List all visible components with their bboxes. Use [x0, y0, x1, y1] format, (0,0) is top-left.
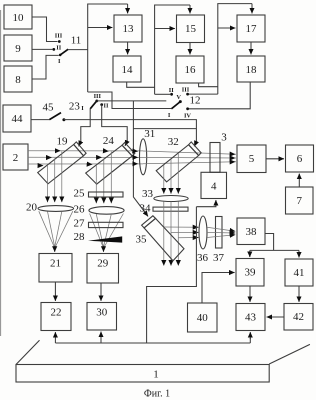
wire 10 to switch 11 contact III	[32, 17, 58, 42]
label 37	[213, 252, 225, 264]
svg-text:42: 42	[293, 311, 304, 323]
svg-text:15: 15	[185, 23, 197, 35]
svg-text:V: V	[176, 94, 181, 101]
wire into 17 left	[218, 27, 236, 29]
rail arrow into 43	[249, 332, 251, 343]
svg-text:23: 23	[69, 101, 81, 113]
focused cone lens 20 to block 21	[39, 211, 73, 252]
wire 5 to 6	[266, 158, 284, 160]
svg-text:II: II	[104, 103, 109, 110]
photometric wedge 28	[88, 236, 122, 242]
svg-text:21: 21	[50, 258, 61, 270]
branch to beamsplitter 32 feed	[133, 128, 196, 130]
wire 42 to 43	[267, 316, 284, 318]
svg-text:34: 34	[140, 203, 152, 215]
svg-text:1: 1	[153, 369, 159, 381]
modulator 3	[210, 143, 220, 173]
beam arrows into lens 31	[134, 151, 138, 164]
beam arrow into mirror 35 corner	[146, 213, 149, 216]
label 20	[26, 202, 38, 214]
beam source lines from laser unit 2	[28, 151, 143, 164]
label 3	[221, 131, 227, 143]
wire block 4 feedback from bus	[196, 200, 216, 207]
switch 45 arm	[49, 113, 61, 120]
svg-text:30: 30	[96, 307, 108, 319]
svg-text:28: 28	[74, 231, 86, 243]
label 33	[142, 188, 154, 200]
svg-text:7: 7	[296, 195, 302, 207]
lens 26	[89, 207, 124, 215]
label 25	[74, 187, 86, 199]
node: channel-1 input bus	[88, 4, 128, 92]
lens 31	[140, 139, 147, 175]
wire 13 to 14	[127, 42, 129, 54]
svg-text:41: 41	[294, 267, 305, 279]
switch 12 contact I label	[168, 112, 171, 119]
wire switch 23 contact II to beamsplitter 24 feed	[102, 105, 128, 143]
svg-text:29: 29	[97, 258, 109, 270]
wire into 15 top	[189, 5, 191, 13]
svg-text:I: I	[81, 105, 84, 112]
block 41	[285, 259, 313, 286]
reflected beams mirror 35 to lens 36	[164, 227, 199, 238]
wire 38 output split to 39 and 41	[250, 234, 299, 258]
filter plate 25	[89, 192, 124, 197]
svg-text:31: 31	[144, 128, 155, 140]
wire channel-1 bottom to switch 12 arm	[88, 92, 172, 109]
switch 11 contact I	[58, 54, 62, 66]
svg-text:39: 39	[245, 267, 257, 279]
beam arrow into beamsplitter 19 corner	[79, 142, 81, 147]
label 28	[74, 231, 86, 243]
block 10	[4, 5, 32, 29]
switch 11 contact II dot	[52, 45, 61, 52]
block 42	[284, 304, 313, 331]
wire into 13 top	[127, 4, 129, 13]
label 27	[74, 218, 86, 230]
svg-text:Фиг. 1: Фиг. 1	[144, 389, 170, 400]
switch 45 contact dot	[62, 118, 65, 121]
wire 7 to 6	[298, 174, 300, 187]
svg-text:32: 32	[168, 136, 179, 148]
switch 11 contact III dot	[55, 33, 63, 43]
svg-text:6: 6	[297, 153, 303, 165]
lens 20	[38, 206, 74, 212]
svg-text:12: 12	[190, 94, 201, 106]
switch 12 contact II	[155, 87, 175, 96]
wire reference beam from line III down to mirror 35	[133, 101, 146, 214]
switch 11 label	[71, 35, 82, 47]
wire switch 23 arm to beamsplitter 19 feed	[81, 109, 90, 143]
block 21	[39, 254, 72, 283]
block 43	[236, 304, 265, 331]
block 30	[87, 303, 117, 331]
mirror 35	[142, 216, 184, 261]
wire 39 to 43	[249, 286, 251, 302]
wire into 15 left	[155, 28, 175, 30]
converging beams into block 38	[207, 227, 235, 237]
converging beams lens 31 to block 5	[143, 151, 236, 164]
label 26	[74, 203, 86, 215]
switch 23 contact I label	[81, 105, 84, 112]
svg-text:5: 5	[249, 153, 255, 165]
wire switch 45 to beamsplitter 32 feed	[64, 120, 197, 143]
beam arrows into block 5	[231, 154, 236, 162]
wire into 13 left	[88, 27, 113, 29]
svg-text:43: 43	[245, 312, 257, 324]
svg-text:14: 14	[122, 64, 134, 76]
beam arrows on beamsplitter 19 face	[39, 151, 61, 166]
filter plate 27	[89, 222, 124, 227]
beam arrow into beamsplitter 32 corner	[194, 142, 196, 147]
switch 12 contact IV	[184, 107, 191, 119]
wire 44 to switch 45	[31, 119, 49, 121]
wire 17 to 18	[250, 42, 252, 54]
base platform 1	[16, 340, 310, 382]
block 14	[113, 56, 141, 82]
label 19	[57, 136, 69, 148]
rail arrow into 30	[100, 332, 102, 343]
reflected beams down from beamsplitter 32	[164, 153, 179, 194]
svg-text:16: 16	[185, 64, 197, 76]
switch 12 contact V	[176, 94, 181, 103]
svg-text:37: 37	[213, 252, 225, 264]
wire 18 output down to contact IV of switch 12	[188, 82, 251, 109]
svg-text:18: 18	[246, 64, 258, 76]
svg-text:35: 35	[136, 233, 148, 245]
svg-text:25: 25	[74, 187, 86, 199]
scan artifact left edge	[0, 10, 2, 336]
svg-text:20: 20	[26, 202, 38, 214]
svg-text:13: 13	[123, 23, 135, 35]
beamsplitter 19	[38, 142, 86, 184]
svg-text:38: 38	[246, 226, 258, 238]
block 15	[177, 15, 205, 43]
switch 45 label	[43, 102, 55, 114]
block 39	[236, 259, 264, 287]
block 17	[237, 15, 265, 42]
svg-text:19: 19	[57, 136, 69, 148]
wire 8 to switch 11 contact I	[32, 55, 59, 79]
svg-text:22: 22	[51, 307, 62, 319]
svg-text:44: 44	[12, 113, 24, 125]
reflected beams down from beamsplitter 19	[48, 151, 62, 202]
svg-text:III: III	[94, 93, 102, 100]
svg-text:11: 11	[71, 35, 82, 47]
svg-text:I: I	[58, 58, 61, 65]
svg-text:17: 17	[246, 23, 258, 35]
wire 21 to 22	[54, 282, 56, 301]
svg-text:II: II	[169, 87, 174, 94]
switch 12 label	[190, 94, 201, 106]
svg-text:III: III	[55, 33, 63, 40]
svg-text:26: 26	[74, 203, 86, 215]
label 24	[103, 135, 115, 147]
reflected beams down from beamsplitter 24	[96, 152, 111, 204]
switch 23 contact III and line toward switch 12	[94, 93, 167, 102]
caption	[144, 389, 170, 400]
beam arrows on beamsplitter 24 face	[88, 151, 109, 165]
node: channel-3 input bus	[218, 4, 252, 95]
label 1	[153, 369, 159, 381]
block 40	[188, 303, 218, 332]
switch 23 label	[69, 101, 81, 113]
svg-text:II: II	[56, 45, 61, 52]
block 7	[286, 187, 314, 214]
block 5	[237, 145, 266, 173]
svg-text:2: 2	[13, 152, 19, 164]
label 31	[144, 128, 155, 140]
wire 41 to 42	[298, 286, 300, 302]
label 32	[168, 136, 179, 148]
svg-text:IV: IV	[184, 112, 191, 119]
svg-text:33: 33	[142, 188, 154, 200]
block 6	[286, 145, 314, 172]
switch 12 contact III	[182, 87, 218, 96]
switch 11 arm	[60, 49, 68, 55]
switch 23 arm	[90, 101, 96, 109]
block 18	[237, 56, 265, 82]
block 44	[3, 105, 31, 132]
svg-text:36: 36	[197, 252, 209, 264]
plate 37	[216, 217, 223, 249]
label 36	[197, 252, 209, 264]
svg-text:8: 8	[15, 74, 21, 86]
label 34	[140, 203, 152, 215]
switch 12 arm	[171, 102, 180, 109]
node: channel-2 input bus	[155, 5, 190, 94]
wire 9 to switch 11 contact II	[32, 48, 52, 50]
beams 34 down through mirror 35	[164, 202, 179, 266]
wire 15 to 16	[189, 43, 191, 55]
svg-text:4: 4	[211, 181, 217, 193]
rail arrow into 22	[54, 332, 56, 343]
block 13	[114, 15, 142, 42]
block 29	[87, 254, 119, 284]
wire 16 output to channel-3 bus	[199, 83, 218, 87]
wire into 17 top	[251, 4, 253, 14]
plate 34	[153, 207, 188, 211]
wire 29 to 30	[100, 283, 102, 301]
block 8	[4, 66, 32, 92]
wire vertical bus to bottom rail	[147, 207, 197, 343]
svg-text:24: 24	[103, 135, 115, 147]
wire 40 to 39	[202, 273, 235, 304]
svg-text:40: 40	[197, 312, 209, 324]
bottom rail bus	[55, 342, 250, 344]
beamsplitter 24	[86, 143, 135, 185]
svg-text:I: I	[168, 112, 171, 119]
block 9	[4, 35, 32, 61]
wire 14 output to node II of switch 12	[127, 82, 155, 87]
lens 33	[154, 196, 188, 202]
block 4	[201, 172, 227, 198]
block 2	[3, 144, 28, 170]
block 22	[41, 303, 71, 331]
svg-text:3: 3	[221, 131, 227, 143]
label 35	[136, 233, 148, 245]
block 38	[237, 218, 265, 245]
svg-text:45: 45	[43, 102, 55, 114]
switch 23 contact II	[100, 103, 109, 110]
svg-text:III: III	[182, 87, 190, 94]
svg-text:9: 9	[15, 43, 21, 55]
lens 36	[199, 216, 207, 249]
beamsplitter 32	[156, 142, 201, 182]
block 16	[176, 56, 204, 83]
beam arrow into beamsplitter 24 corner	[125, 141, 127, 146]
focused cone lens 26 to block 29	[90, 214, 124, 252]
svg-text:27: 27	[74, 218, 86, 230]
svg-text:10: 10	[13, 12, 25, 24]
wire switch 11 to unit 13 input	[68, 49, 88, 51]
